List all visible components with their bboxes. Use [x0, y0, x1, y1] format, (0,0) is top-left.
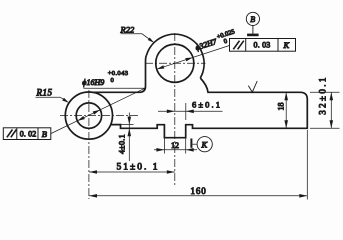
small boss outer circle R15	[65, 92, 112, 139]
svg-text:6±0.1: 6±0.1	[192, 100, 222, 110]
dimension 160 extension line right	[306, 130, 308, 200]
R22 underline and leader	[121, 34, 150, 39]
arrow at phi32 hole lower left	[157, 65, 165, 69]
small boss hole circle phi16	[76, 103, 101, 128]
feature control frame // 0.02 B	[3, 128, 51, 140]
datum K leader line	[192, 143, 197, 145]
dimension 160 line	[89, 195, 307, 197]
dimension 18 line	[285, 92, 287, 128]
datum B circle	[246, 12, 259, 25]
datum B stem	[252, 26, 254, 34]
dimension 32+-0.1 extension lines	[310, 92, 340, 128]
dimension 4 line	[128, 113, 130, 162]
svg-text:12: 12	[171, 141, 179, 150]
dimension 6+-0.1 line	[158, 110, 223, 112]
svg-text:K: K	[201, 140, 209, 150]
dimension 12 extension lines	[164, 139, 185, 154]
arrow at phi32 hole upper right	[185, 57, 193, 61]
dimension 51+-0.1 line	[89, 171, 175, 173]
text 4+-0.1 rotated	[118, 134, 127, 154]
surface finish symbol on bar top	[248, 81, 257, 92]
svg-text:0: 0	[111, 77, 114, 84]
dimension 32 line	[330, 92, 332, 128]
text 18 rotated	[277, 103, 286, 111]
datum B base bar	[247, 34, 259, 37]
large boss vertical centerline	[174, 33, 176, 186]
R22 arrow	[148, 37, 155, 42]
dimension 12 line	[154, 149, 197, 151]
6 dim arrow pointing right at centerline	[167, 110, 175, 114]
svg-text:R15: R15	[36, 87, 53, 97]
text 32+-0.1 rotated	[318, 75, 328, 115]
6 dim arrow pointing left at K plane	[186, 110, 194, 114]
svg-text:0. 02: 0. 02	[20, 130, 37, 139]
parallel symbol in FCF B	[7, 130, 17, 138]
svg-text:+0.043: +0.043	[108, 70, 129, 77]
svg-text:51±0. 1: 51±0. 1	[117, 162, 160, 172]
small boss vertical centerline	[88, 90, 90, 199]
svg-text:K: K	[283, 40, 291, 50]
svg-text:0. 03: 0. 03	[254, 41, 271, 50]
arrow at phi16 hole upper right	[93, 110, 100, 115]
phi32H7 leader line from FCF K to hole	[157, 46, 230, 70]
large boss horizontal centerline	[145, 62, 206, 64]
svg-text:ϕ16H9: ϕ16H9	[82, 78, 104, 87]
svg-text:160: 160	[191, 186, 207, 196]
phi16H9 label underline	[84, 87, 146, 89]
leader line from FCF B through hole to label	[51, 88, 145, 133]
svg-text:18: 18	[277, 103, 286, 111]
svg-text:B: B	[250, 15, 255, 24]
arrow at phi16 hole lower left	[77, 116, 84, 121]
part outline right side: fillet, bar top, corner, right edge, bottom, notch	[111, 78, 307, 138]
large boss hole circle phi32	[156, 44, 194, 82]
svg-text:B: B	[42, 129, 47, 139]
part outline left arm top edge	[92, 55, 147, 92]
dimension 4+-0.1 plateau extension	[121, 124, 134, 126]
feature control frame // 0.03 K	[230, 39, 296, 52]
datum K bar	[190, 139, 192, 148]
dimension 6+-0.1 extension line of datum K plane	[185, 103, 187, 120]
svg-text:0: 0	[223, 38, 228, 46]
parallel symbol in FCF K	[233, 41, 244, 50]
small boss horizontal centerline	[60, 115, 138, 117]
large boss outer arc R22	[147, 34, 205, 78]
svg-text:32±0.1: 32±0.1	[318, 75, 328, 115]
datum K circle	[197, 137, 212, 152]
svg-text:R22: R22	[120, 25, 135, 35]
phi32H7 label text rotated	[194, 37, 219, 53]
R15 arrow	[62, 98, 69, 103]
svg-text:4±0.1: 4±0.1	[118, 134, 127, 154]
R15 underline and leader	[36, 97, 65, 99]
